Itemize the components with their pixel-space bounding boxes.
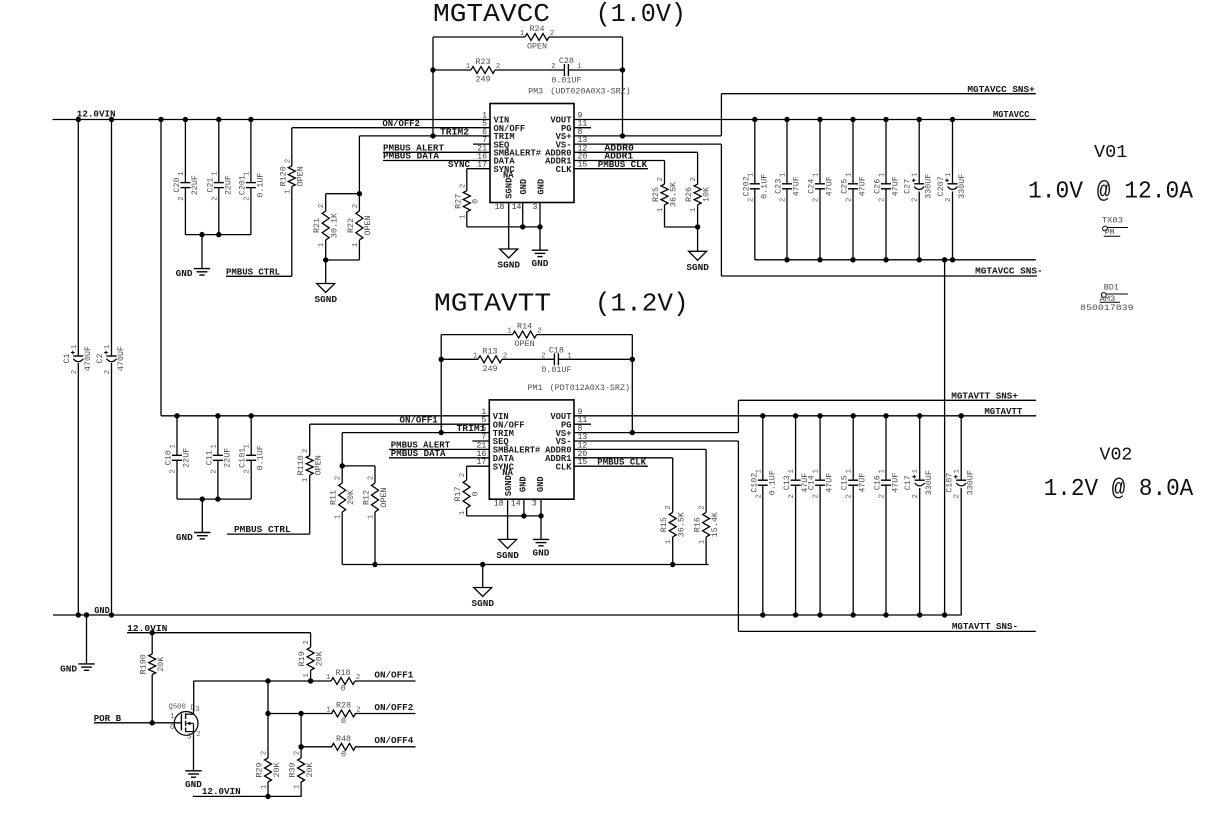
wire ADDR1 row 2 bbox=[574, 457, 673, 459]
svg-text:2: 2 bbox=[284, 159, 292, 163]
wire x268 vertical bbox=[267, 681, 269, 758]
junction C207 top bbox=[950, 117, 955, 122]
capacitor C25 bbox=[840, 173, 868, 202]
svg-text:GND: GND bbox=[176, 268, 193, 279]
junction C14 bottom bbox=[817, 612, 822, 617]
junction input rail gnd 2 bbox=[200, 496, 205, 501]
svg-text:47UF: 47UF bbox=[891, 473, 901, 493]
junction 12.0VIN bbox=[109, 117, 114, 122]
svg-text:C107: C107 bbox=[945, 473, 955, 493]
junction 12.0VIN bbox=[216, 117, 221, 122]
junction R190 POR_B bbox=[150, 720, 155, 725]
capacitor C26 bbox=[873, 173, 901, 202]
svg-text:1: 1 bbox=[170, 444, 178, 448]
wire ADDR0 row bbox=[574, 151, 698, 153]
svg-text:15.4K: 15.4K bbox=[710, 511, 720, 537]
resistor R27 bbox=[453, 184, 480, 219]
svg-text:2: 2 bbox=[879, 494, 887, 498]
svg-text:2: 2 bbox=[551, 63, 555, 71]
svg-text:22UF: 22UF bbox=[223, 175, 233, 195]
svg-text:PMBUS DATA: PMBUS DATA bbox=[391, 448, 446, 459]
capacitor C101 bbox=[238, 444, 266, 473]
svg-text:1: 1 bbox=[699, 540, 707, 544]
svg-text:R21: R21 bbox=[312, 218, 322, 233]
svg-text:0.1UF: 0.1UF bbox=[759, 174, 769, 199]
junction R19 ON/OFF1 bbox=[308, 678, 313, 683]
svg-text:C10: C10 bbox=[164, 450, 174, 465]
wire R19 top lead bbox=[310, 633, 312, 648]
svg-text:SGND: SGND bbox=[686, 262, 709, 273]
svg-text:C16: C16 bbox=[873, 475, 883, 490]
junction C2 gnd bbox=[109, 612, 114, 617]
junction C1 gnd bbox=[76, 612, 81, 617]
wire ON/OFF1 left bbox=[194, 680, 331, 682]
svg-text:PM1: PM1 bbox=[527, 383, 542, 393]
svg-text:2: 2 bbox=[104, 370, 112, 374]
wire pin14 stub 2 bbox=[523, 499, 525, 516]
resistor R28 bbox=[326, 701, 360, 727]
svg-text:2: 2 bbox=[912, 494, 920, 498]
svg-text:R26: R26 bbox=[684, 187, 694, 202]
svg-text:2: 2 bbox=[879, 198, 887, 202]
resistor R190 bbox=[139, 654, 166, 675]
wire R29 bottom lead bbox=[267, 782, 269, 796]
ground GND left bbox=[60, 663, 95, 674]
svg-text:20K: 20K bbox=[156, 656, 166, 672]
svg-text:PMBUS CTRL: PMBUS CTRL bbox=[234, 524, 291, 535]
junction R26 bottom bbox=[695, 224, 700, 229]
svg-text:470UF: 470UF bbox=[116, 346, 126, 371]
wire SNS+ vertical 2 bbox=[737, 400, 739, 432]
junction R29 bottom bbox=[265, 794, 270, 799]
svg-text:470UF: 470UF bbox=[83, 346, 93, 371]
junction pin14 gnd rail 2 bbox=[521, 513, 526, 518]
svg-text:R16: R16 bbox=[693, 517, 703, 532]
svg-text:C25: C25 bbox=[840, 179, 850, 194]
wire MGTAVTT SNS+ line bbox=[738, 399, 1036, 401]
svg-text:249: 249 bbox=[475, 75, 490, 85]
svg-text:GND: GND bbox=[537, 179, 547, 195]
svg-text:1: 1 bbox=[326, 674, 330, 682]
junction C23 bottom bbox=[784, 257, 789, 262]
junction C15 bottom bbox=[851, 612, 856, 617]
svg-text:C13: C13 bbox=[782, 475, 792, 490]
wire input cap bottom rail 2 bbox=[177, 498, 251, 500]
wire R27 bottom lead bbox=[466, 212, 468, 227]
svg-text:1: 1 bbox=[71, 345, 79, 349]
junction C25 top bbox=[850, 117, 855, 122]
svg-text:1: 1 bbox=[170, 713, 174, 721]
svg-text:MGTAVCC SNS+: MGTAVCC SNS+ bbox=[967, 84, 1035, 95]
junction VIN row 2 bbox=[174, 413, 179, 418]
wire C26 column upper bbox=[885, 120, 887, 184]
testpoint BD1 bbox=[1101, 293, 1128, 298]
svg-text:2: 2 bbox=[496, 63, 500, 71]
svg-text:OPEN: OPEN bbox=[379, 487, 389, 507]
wire R17 bottom lead bbox=[466, 508, 468, 516]
wire MGTAVCC SNS- line bbox=[721, 275, 1037, 277]
junction TRIM1 feedback bbox=[439, 430, 444, 435]
wire 12.0VIN row 2 bbox=[161, 415, 489, 417]
wire output cap bottom rail bbox=[755, 259, 1036, 261]
svg-text:1: 1 bbox=[788, 469, 796, 473]
svg-text:1: 1 bbox=[368, 515, 376, 519]
wire C107 column lower bbox=[960, 488, 962, 615]
svg-text:POR B: POR B bbox=[94, 713, 122, 724]
wire feedback right vertical bbox=[622, 37, 624, 136]
junction pin3 gnd rail 2 bbox=[538, 513, 543, 518]
wire C28 to right bbox=[568, 69, 622, 71]
svg-text:2: 2 bbox=[178, 196, 186, 200]
svg-text:2: 2 bbox=[665, 505, 673, 509]
svg-text:1: 1 bbox=[211, 171, 219, 175]
svg-text:20K: 20K bbox=[314, 650, 324, 666]
wire pin18 SGND stub 2 bbox=[507, 499, 509, 539]
svg-text:2: 2 bbox=[537, 328, 541, 336]
resistor R39 bbox=[288, 751, 315, 789]
resistor R19 bbox=[297, 640, 324, 677]
svg-text:SGND: SGND bbox=[471, 598, 494, 609]
wire gnd vertical to GND rail bbox=[944, 260, 946, 615]
svg-text:0.01UF: 0.01UF bbox=[541, 365, 571, 375]
wire C18 to right bbox=[558, 358, 632, 360]
svg-text:R25: R25 bbox=[651, 187, 661, 202]
svg-text:C11: C11 bbox=[204, 450, 214, 465]
wire R25 bottom lead bbox=[664, 205, 666, 227]
resistor R110 bbox=[296, 449, 323, 483]
svg-text:0.1UF: 0.1UF bbox=[255, 173, 265, 198]
svg-text:C14: C14 bbox=[807, 475, 817, 490]
wire C11 column upper bbox=[217, 416, 219, 456]
svg-text:C17: C17 bbox=[903, 475, 913, 490]
junction long vertical gnd bbox=[942, 612, 947, 617]
svg-text:1: 1 bbox=[665, 540, 673, 544]
wire C10 column lower bbox=[176, 460, 178, 499]
wire R14 top row right bbox=[537, 334, 633, 336]
wire C16 column upper bbox=[885, 416, 887, 480]
wire gnd drop input caps 2 bbox=[201, 499, 203, 532]
svg-text:(1.2V): (1.2V) bbox=[595, 289, 689, 319]
svg-text:1: 1 bbox=[466, 63, 470, 71]
wire sgnd drop R21 bbox=[325, 260, 327, 284]
ground SGND under PM1 bbox=[496, 539, 519, 561]
wire 12.0VIN drop to MGTAVTT bbox=[160, 120, 162, 416]
svg-text:V02: V02 bbox=[1100, 446, 1133, 466]
svg-text:1: 1 bbox=[912, 469, 920, 473]
svg-text:C18: C18 bbox=[549, 345, 564, 355]
junction C25 bottom bbox=[850, 257, 855, 262]
svg-text:22UF: 22UF bbox=[222, 448, 232, 468]
svg-text:14: 14 bbox=[512, 203, 522, 212]
svg-text:1: 1 bbox=[294, 785, 302, 789]
wire R11 drop bbox=[341, 433, 343, 483]
junction VIN row 2 bbox=[249, 413, 254, 418]
svg-text:GND: GND bbox=[176, 532, 193, 543]
wire R11 bottom lead bbox=[341, 512, 343, 565]
svg-text:2: 2 bbox=[699, 505, 707, 509]
svg-text:SGND: SGND bbox=[505, 178, 515, 199]
wire ON/OFF4 right bbox=[355, 746, 416, 748]
svg-text:20K: 20K bbox=[346, 489, 356, 505]
wire feedback left vertical 2 bbox=[440, 335, 442, 433]
svg-text:R190: R190 bbox=[139, 654, 149, 674]
wire C10 column upper bbox=[176, 416, 178, 456]
svg-text:1: 1 bbox=[954, 469, 962, 473]
wire pin14 stub bbox=[522, 203, 524, 227]
junction C24 bottom bbox=[817, 257, 822, 262]
wire R190 bottom lead bbox=[151, 675, 153, 723]
wire TRIM1 row bbox=[342, 432, 489, 434]
wire 12.0VIN bottom line bbox=[193, 795, 302, 797]
svg-text:36.5K: 36.5K bbox=[677, 511, 687, 537]
svg-text:TX03: TX03 bbox=[1102, 216, 1123, 226]
wire SEQ pin7 stub bbox=[473, 143, 490, 145]
svg-text:GND: GND bbox=[533, 547, 550, 558]
wire ADDR1 drop 2 bbox=[672, 458, 674, 513]
ground GND under PM3 bbox=[532, 250, 549, 269]
resistor R16 bbox=[693, 505, 720, 544]
wire C23 column lower bbox=[786, 189, 788, 260]
junction C102 bottom bbox=[760, 612, 765, 617]
resistor R12 bbox=[362, 476, 389, 519]
resistor R23 bbox=[466, 57, 500, 85]
svg-text:2: 2 bbox=[945, 198, 953, 202]
svg-text:1: 1 bbox=[261, 785, 269, 789]
wire input cap bottom rail bbox=[185, 234, 251, 236]
svg-text:2: 2 bbox=[846, 198, 854, 202]
svg-text:MGTAVTT SNS-: MGTAVTT SNS- bbox=[952, 621, 1018, 632]
svg-text:1: 1 bbox=[846, 469, 854, 473]
svg-text:1: 1 bbox=[352, 243, 360, 247]
junction VS+ feedback 2 bbox=[630, 430, 635, 435]
capacitor C24 bbox=[807, 173, 835, 202]
wire C27 column lower bbox=[918, 192, 920, 260]
resistor R26 bbox=[684, 177, 711, 212]
ground SGND under PM3 bbox=[497, 249, 520, 271]
junction VIN row 2 bbox=[215, 413, 220, 418]
svg-text:1: 1 bbox=[326, 707, 330, 715]
junction C27 bottom bbox=[917, 257, 922, 262]
svg-text:GND: GND bbox=[60, 663, 77, 674]
svg-text:1: 1 bbox=[912, 173, 920, 177]
wire SNS- vertical bbox=[720, 144, 722, 276]
wire C17 column upper bbox=[919, 416, 921, 480]
svg-text:1: 1 bbox=[657, 208, 665, 212]
svg-text:C102: C102 bbox=[749, 473, 759, 493]
svg-text:1: 1 bbox=[302, 478, 310, 482]
svg-text:PMBUS CLK: PMBUS CLK bbox=[597, 456, 646, 467]
wire R120 bottom lead bbox=[291, 187, 293, 277]
svg-text:R28: R28 bbox=[336, 701, 351, 711]
svg-text:2: 2 bbox=[813, 198, 821, 202]
resistor R17 bbox=[453, 473, 480, 515]
wire VS- row bbox=[574, 143, 721, 145]
wire MGTAVCC SNS+ line bbox=[721, 93, 1035, 95]
svg-text:1: 1 bbox=[567, 352, 571, 360]
capacitor C17 bbox=[903, 469, 934, 498]
wire ON/OFF2 left bbox=[268, 713, 332, 715]
wire R23 to C28 bbox=[495, 69, 564, 71]
wire R12 top lead bbox=[374, 466, 376, 483]
svg-text:2: 2 bbox=[503, 352, 507, 360]
wire R27 top lead bbox=[466, 169, 468, 191]
wire feedback right vertical 2 bbox=[631, 335, 633, 433]
junction 12.0VIN bbox=[183, 117, 188, 122]
wire C14 column lower bbox=[819, 485, 821, 615]
wire gnd drop input caps bbox=[201, 235, 203, 269]
svg-text:SGND: SGND bbox=[497, 260, 520, 271]
svg-text:C207: C207 bbox=[936, 176, 946, 196]
junction pin3 gnd rail bbox=[537, 224, 542, 229]
junction pin14 gnd rail bbox=[520, 224, 525, 229]
ground GND under Q500 bbox=[185, 771, 202, 790]
wire C1 column lower bbox=[77, 363, 79, 615]
wire ADDR0 row 2 bbox=[574, 448, 706, 450]
wire PG pin11 stub bbox=[574, 127, 591, 129]
wire C20 column lower bbox=[184, 188, 186, 235]
svg-text:2: 2 bbox=[244, 469, 252, 473]
svg-text:47UF: 47UF bbox=[858, 473, 868, 493]
wire R15 bottom lead bbox=[672, 537, 674, 565]
junction C102 top bbox=[760, 413, 765, 418]
svg-text:2: 2 bbox=[303, 640, 311, 644]
svg-text:3: 3 bbox=[533, 203, 538, 212]
junction C13 bottom bbox=[793, 612, 798, 617]
svg-text:2: 2 bbox=[302, 449, 310, 453]
wire R110 bottom lead bbox=[309, 475, 311, 534]
wire R14 top row bbox=[441, 334, 512, 336]
wire R21 top lead bbox=[325, 194, 327, 211]
svg-text:C27: C27 bbox=[903, 179, 913, 194]
wire R25 R26 bottom rail bbox=[665, 226, 698, 228]
svg-text:0: 0 bbox=[341, 749, 346, 759]
svg-text:R39: R39 bbox=[288, 762, 298, 777]
wire R13 to C18 bbox=[502, 358, 554, 360]
svg-text:C20: C20 bbox=[172, 178, 182, 193]
wire GND rail bbox=[53, 614, 962, 616]
wire C102 column upper bbox=[762, 416, 764, 480]
wire C17 column lower bbox=[919, 488, 921, 615]
wire SEQ pin7 stub 2 bbox=[472, 440, 489, 442]
resistor R13 bbox=[473, 346, 507, 374]
resistor R48 bbox=[332, 734, 356, 760]
ground input caps GND bbox=[176, 268, 211, 279]
junction sgnd drop rail bbox=[480, 562, 485, 567]
wire C1 column upper bbox=[77, 120, 79, 357]
svg-text:SYNC: SYNC bbox=[448, 159, 470, 170]
svg-text:2: 2 bbox=[170, 469, 178, 473]
svg-text:R24: R24 bbox=[529, 24, 544, 34]
svg-text:1: 1 bbox=[335, 515, 343, 519]
wire PMBUS CLK row bbox=[574, 168, 648, 170]
svg-text:ON/OFF2: ON/OFF2 bbox=[374, 702, 413, 713]
resistor R24 bbox=[520, 24, 554, 52]
svg-text:0: 0 bbox=[340, 684, 345, 694]
wire C13 column lower bbox=[795, 485, 797, 615]
capacitor C202 bbox=[741, 173, 769, 202]
svg-text:V01: V01 bbox=[1094, 143, 1127, 163]
ground SGND below R26 bbox=[686, 251, 709, 272]
svg-text:2: 2 bbox=[196, 731, 200, 739]
svg-text:1: 1 bbox=[813, 173, 821, 177]
wire VS+ row bbox=[574, 135, 721, 137]
capacitor C1 bbox=[62, 345, 93, 374]
capacitor C21 bbox=[205, 171, 233, 200]
wire PG pin11 stub 2 bbox=[574, 423, 591, 425]
wire R24 top row bbox=[433, 36, 525, 38]
svg-text:47UF: 47UF bbox=[825, 176, 835, 196]
junction R21 bottom bbox=[323, 257, 328, 262]
svg-text:2: 2 bbox=[261, 751, 269, 755]
capacitor C2 bbox=[95, 345, 126, 374]
svg-text:1: 1 bbox=[520, 30, 524, 38]
junction C26 top bbox=[883, 117, 888, 122]
wire C25 column lower bbox=[852, 189, 854, 260]
wire C2 column upper bbox=[111, 120, 113, 357]
wire R23 row left bbox=[433, 69, 471, 71]
wire R19 bottom lead bbox=[310, 670, 312, 681]
wire MGTAVTT VOUT line bbox=[574, 415, 1036, 417]
svg-text:1: 1 bbox=[846, 173, 854, 177]
svg-text:1: 1 bbox=[507, 328, 511, 336]
svg-text:R22: R22 bbox=[346, 218, 356, 233]
junction C15 top bbox=[851, 413, 856, 418]
svg-text:C101: C101 bbox=[238, 448, 248, 468]
svg-text:2: 2 bbox=[356, 674, 360, 682]
wire C101 column upper bbox=[250, 416, 252, 456]
svg-text:G: G bbox=[170, 724, 174, 732]
junction x268 ON/OFF2 bbox=[265, 711, 270, 716]
svg-text:1: 1 bbox=[945, 173, 953, 177]
junction x301 ON/OFF2 bbox=[298, 711, 303, 716]
wire ADDR0 drop 2 bbox=[705, 449, 707, 512]
junction C17 top bbox=[917, 413, 922, 418]
junction input cap rail C21 bbox=[216, 232, 221, 237]
svg-text:330UF: 330UF bbox=[924, 174, 934, 199]
junction 12.0VIN bbox=[76, 117, 81, 122]
wire PMBUS DATA 2 bbox=[389, 457, 489, 459]
wire SYNC row bbox=[467, 168, 490, 170]
resistor R15 bbox=[659, 505, 686, 544]
svg-text:2: 2 bbox=[755, 494, 763, 498]
svg-text:2: 2 bbox=[459, 184, 467, 188]
wire ADDR1 drop bbox=[664, 161, 666, 185]
wire C26 column lower bbox=[885, 189, 887, 260]
svg-text:0.1UF: 0.1UF bbox=[767, 470, 777, 495]
svg-text:SGND: SGND bbox=[504, 475, 514, 496]
wire C14 column upper bbox=[819, 416, 821, 480]
svg-text:OPEN: OPEN bbox=[515, 339, 535, 349]
junction C207 bottom bbox=[950, 257, 955, 262]
svg-text:0: 0 bbox=[470, 491, 480, 496]
svg-text:ON/OFF1: ON/OFF1 bbox=[374, 669, 413, 680]
svg-text:OPEN: OPEN bbox=[296, 166, 306, 186]
svg-text:C15: C15 bbox=[840, 475, 850, 490]
wire C24 column lower bbox=[819, 189, 821, 260]
svg-text:12.0VIN: 12.0VIN bbox=[127, 623, 168, 634]
svg-text:22UF: 22UF bbox=[182, 448, 192, 468]
part AM3 underline bbox=[1100, 301, 1120, 303]
wire ON/OFF4 left bbox=[301, 746, 332, 748]
junction C16 top bbox=[883, 413, 888, 418]
junction C202 top bbox=[752, 117, 757, 122]
wire R22 bottom lead bbox=[358, 240, 360, 260]
svg-text:GND: GND bbox=[94, 605, 110, 616]
ground GND under PM1 bbox=[533, 539, 550, 558]
junction R13 row left bbox=[439, 357, 444, 362]
wire R26 bottom lead bbox=[697, 205, 699, 227]
svg-text:12.0VIN: 12.0VIN bbox=[202, 786, 241, 797]
